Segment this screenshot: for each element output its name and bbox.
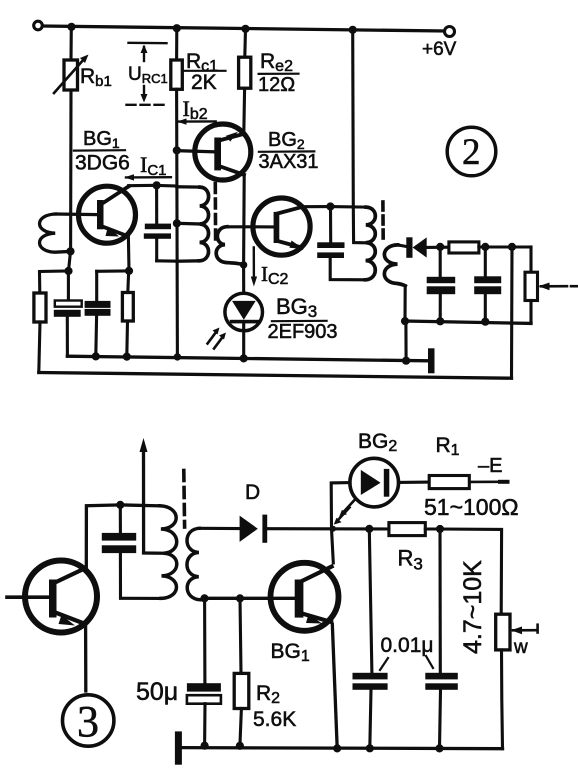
svg-text:Rb1: Rb1 bbox=[80, 65, 112, 90]
node 50u ground bbox=[201, 742, 209, 750]
wire node to winding top bbox=[330, 205, 366, 209]
svg-text:Re2: Re2 bbox=[260, 50, 293, 75]
wire BG1 collector to tank bbox=[129, 184, 157, 187]
capacitor filter 2 bbox=[484, 247, 487, 276]
resistor Rb1 (variable) bbox=[64, 60, 78, 90]
node filter mid bbox=[481, 243, 489, 251]
node diode out / BG1 collector bbox=[330, 526, 336, 532]
svg-text:2K: 2K bbox=[191, 71, 217, 94]
resistor R2 bbox=[240, 598, 241, 673]
node R2 ground bbox=[236, 742, 244, 750]
coupling core T1 (dashed) bbox=[214, 184, 218, 243]
resistor (emitter of BG1) bbox=[126, 271, 130, 293]
figure number 3 bbox=[62, 695, 113, 746]
LED BG3 (photo detector) bbox=[242, 265, 245, 293]
resistor (left bias) bbox=[34, 293, 46, 322]
node base feed BG2 bbox=[173, 146, 181, 154]
svg-text:+6V: +6V bbox=[422, 39, 457, 60]
svg-text:3DG6: 3DG6 bbox=[75, 152, 130, 175]
measurement URc1 bracket bbox=[129, 42, 167, 45]
coil T2 primary (tapped) bbox=[366, 207, 376, 280]
wire node to lower node bbox=[69, 251, 71, 271]
wire Rb1 to coil node bbox=[69, 90, 73, 251]
wire rail column to tap bbox=[353, 30, 365, 243]
capacitor 0.01u no.2 bbox=[438, 529, 441, 673]
LED BG2 (emitter) bbox=[331, 483, 350, 529]
wire secondary to converter base bbox=[227, 225, 274, 228]
wire emitter node row bbox=[97, 269, 129, 272]
wire detector rail to ground bbox=[404, 321, 407, 361]
coil T1 secondary bbox=[216, 227, 243, 265]
wire BG1 emitter to ground rail bbox=[331, 622, 337, 749]
capacitor 0.01u no.1 bbox=[369, 529, 372, 673]
capacitor 50u (electrolytic) bbox=[203, 598, 206, 683]
node resistor to ground rail bbox=[123, 353, 131, 361]
wire BG1 emitter down bbox=[128, 236, 129, 271]
coupling core T2 (dashed) bbox=[381, 202, 385, 242]
svg-text:BG1: BG1 bbox=[83, 128, 120, 151]
node main ground junction bbox=[402, 357, 410, 365]
capacitor tank (fig3) bbox=[119, 505, 122, 533]
wire emitter down (open) bbox=[84, 624, 86, 692]
antenna/AGC arrow line bbox=[142, 446, 145, 553]
ground (fig2) bbox=[428, 348, 435, 373]
wire BG1 collector column bbox=[332, 529, 334, 563]
coil T2 secondary bbox=[384, 245, 405, 286]
wire node to winding top bbox=[120, 503, 159, 507]
svg-text:D: D bbox=[245, 481, 260, 504]
transistor (converter) bbox=[253, 198, 310, 255]
wire collector node to winding top bbox=[157, 184, 177, 188]
wire row to pot column bbox=[440, 529, 502, 614]
wire node to bottom return bbox=[510, 247, 514, 378]
wire bottom return rail bbox=[39, 373, 512, 379]
node filter right bbox=[508, 243, 516, 251]
resistor Rc1 bbox=[171, 60, 183, 89]
coupling core T3 (dashed) bbox=[182, 471, 186, 528]
wire Rc1 column bbox=[175, 89, 178, 186]
resistor R1 (horizontal) bbox=[429, 476, 469, 489]
resistor Re2 bbox=[239, 57, 251, 88]
coil T1 primary (tapped) bbox=[177, 185, 200, 189]
capacitor tank C2 bbox=[155, 185, 158, 223]
svg-text:URC1: URC1 bbox=[128, 64, 168, 86]
wire resistor to bottom rail bbox=[39, 322, 40, 373]
light arrows into BG3 bbox=[208, 332, 217, 344]
node collector / tank top bbox=[153, 181, 161, 189]
wire rail to Rb1 bbox=[69, 27, 72, 60]
transistor BG1 (fig3) bbox=[271, 563, 339, 631]
diode (detector) bbox=[406, 237, 412, 257]
svg-text:51~100Ω: 51~100Ω bbox=[424, 494, 519, 520]
coil T3 secondary bbox=[187, 528, 205, 600]
node winding return ground bbox=[174, 353, 181, 360]
wire converter collector row bbox=[301, 205, 330, 209]
node cap to ground rail bbox=[92, 352, 100, 360]
transistor (IF amp, bottom-left) bbox=[25, 561, 97, 633]
node cap column 2 bbox=[436, 525, 444, 533]
node osc tank top bbox=[326, 202, 334, 210]
svg-text:3AX31: 3AX31 bbox=[259, 151, 319, 173]
node cap1 ground bbox=[436, 317, 444, 325]
light arrows out of BG2 bbox=[343, 500, 355, 513]
wire diode row bbox=[199, 527, 239, 530]
node cap1 ground (fig3) bbox=[366, 744, 374, 752]
node detector rail left bbox=[401, 317, 409, 325]
wire BG2 emitter to Re2 bbox=[242, 88, 246, 134]
ground (fig3) bbox=[175, 731, 182, 764]
wire node to left resistor bbox=[40, 271, 69, 293]
svg-text:–E: –E bbox=[478, 455, 502, 477]
node cap2 ground bbox=[481, 318, 489, 326]
capacitor osc tank bbox=[329, 207, 332, 243]
wiper arrow output bbox=[541, 285, 567, 288]
svg-text:50μ: 50μ bbox=[136, 678, 178, 706]
svg-text:R2: R2 bbox=[256, 682, 280, 707]
figure number 2 bbox=[447, 127, 496, 176]
svg-text:R3: R3 bbox=[398, 546, 423, 574]
wire secondary top to diode bbox=[398, 245, 407, 247]
node cap2 ground (fig3) bbox=[435, 744, 443, 752]
wire collector up to tank bbox=[85, 505, 121, 569]
node emitter ground bbox=[333, 744, 341, 752]
node coil bottom / Rb1 column bbox=[66, 247, 74, 255]
node on rail (oscillator feed column) bbox=[349, 26, 357, 34]
node BG2 collector / secondary bbox=[240, 261, 247, 268]
node 50u column bbox=[200, 594, 208, 602]
wire +6V top rail bbox=[43, 26, 445, 31]
wire secondary bottom down bbox=[403, 286, 406, 321]
wire ground rail (fig2) bbox=[67, 356, 428, 361]
resistor R3 (horizontal) bbox=[389, 523, 425, 536]
node tap bbox=[173, 219, 181, 227]
svg-text:IC2: IC2 bbox=[261, 262, 289, 288]
svg-text:12Ω: 12Ω bbox=[258, 74, 295, 96]
node emitter column bbox=[125, 267, 133, 275]
node cap column 1 bbox=[365, 525, 373, 533]
svg-text:IC1: IC1 bbox=[140, 152, 167, 179]
wire detector rail bbox=[405, 321, 531, 323]
terminal left (+ supply input) bbox=[34, 21, 43, 30]
transistor BG1 bbox=[79, 186, 136, 243]
node LED ground bbox=[240, 354, 248, 362]
wire base row bbox=[205, 597, 295, 600]
svg-text:2EF903: 2EF903 bbox=[268, 321, 338, 343]
potentiometer 4.7-10K bbox=[496, 614, 510, 650]
terminal +6V bbox=[445, 27, 455, 37]
potentiometer (volume) bbox=[529, 247, 532, 272]
node on rail (Rb1 column) bbox=[67, 23, 75, 31]
transistor BG2 bbox=[195, 124, 251, 180]
node R2 column bbox=[236, 594, 244, 602]
svg-text:BG2: BG2 bbox=[268, 129, 305, 152]
wire filter row bbox=[479, 245, 531, 248]
wire rail to Rc1 bbox=[175, 28, 178, 60]
wire BG2 collector down bbox=[242, 175, 246, 265]
diode D bbox=[240, 516, 258, 542]
node after diode bbox=[436, 243, 444, 251]
svg-text:4.7~10K: 4.7~10K bbox=[459, 560, 487, 654]
svg-text:BG1: BG1 bbox=[271, 640, 310, 665]
label IC2 with arrow bbox=[253, 248, 255, 282]
resistor (detector filter, horizontal) bbox=[449, 242, 479, 253]
node on rail (Re2 column) bbox=[241, 25, 249, 33]
svg-text:BG3: BG3 bbox=[276, 294, 317, 321]
svg-text:3: 3 bbox=[77, 697, 99, 746]
coil L1 (base tank of BG1) bbox=[40, 214, 71, 252]
node tank top bbox=[116, 501, 124, 509]
svg-text:5.6K: 5.6K bbox=[253, 708, 296, 731]
node bias divider bbox=[64, 267, 72, 275]
node on rail (Rc1 column) bbox=[173, 24, 181, 32]
coil T3 primary (tapped) bbox=[160, 506, 177, 599]
wire Rc1 column to ground bbox=[175, 187, 179, 357]
svg-text:2: 2 bbox=[462, 132, 481, 173]
svg-text:BG2: BG2 bbox=[358, 430, 397, 455]
wiper arrow W bbox=[513, 629, 536, 632]
wire ground rail (fig3) bbox=[182, 748, 503, 749]
capacitor (trimmer, tank) bbox=[67, 271, 70, 300]
svg-text:R1: R1 bbox=[436, 434, 460, 459]
capacitor filter 1 bbox=[439, 247, 442, 277]
svg-text:0.01μ: 0.01μ bbox=[381, 634, 434, 657]
wire rail to Re2 bbox=[243, 29, 247, 57]
capacitor (emitter bypass) bbox=[95, 271, 98, 301]
svg-text:w: w bbox=[513, 637, 528, 658]
